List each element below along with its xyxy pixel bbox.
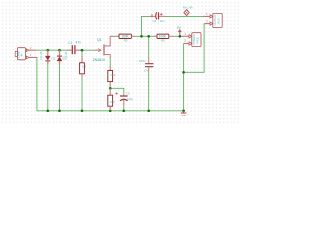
connector X2 body bbox=[192, 33, 201, 47]
wire node A up to C2 bbox=[142, 16, 151, 36]
pin 2 of X3 bbox=[204, 23, 210, 25]
node A bus-C2 bbox=[140, 35, 143, 38]
svg-text:2K2: 2K2 bbox=[110, 73, 116, 77]
wire R2 to junction bbox=[109, 85, 111, 89]
svg-text:D1: D1 bbox=[52, 57, 56, 61]
wire C1 to gate Q1 bbox=[80, 49, 96, 51]
wire drain Q1 to R3 bbox=[113, 35, 117, 37]
svg-text:IN: IN bbox=[20, 54, 24, 57]
connector X3 body bbox=[213, 13, 222, 27]
svg-text:2: 2 bbox=[206, 19, 208, 23]
wire X3 pin2 down and across bbox=[184, 24, 205, 73]
wire X2 pin2 down to rail bbox=[183, 44, 185, 111]
node rail R4 bbox=[109, 109, 112, 112]
wire R4 to rail bbox=[109, 109, 111, 111]
wire ground rail bbox=[37, 57, 184, 110]
node supply junction bbox=[178, 35, 181, 38]
svg-text:150n: 150n bbox=[139, 59, 146, 63]
svg-text:R5: R5 bbox=[161, 39, 165, 43]
svg-text:GND: GND bbox=[181, 115, 186, 117]
svg-text:C4: C4 bbox=[144, 68, 148, 72]
node rail C3 bbox=[122, 109, 125, 112]
pin 2 of X2 bbox=[184, 43, 189, 45]
wire C4 to rail bbox=[148, 71, 150, 111]
svg-text:9V: 9V bbox=[177, 26, 182, 30]
wire R1 bottom to rail bbox=[81, 77, 83, 111]
wire source Q1 to R2 bbox=[109, 58, 111, 68]
wire C2 to X3 pin1 bbox=[165, 15, 204, 17]
pin 1 of X3 bbox=[203, 15, 210, 17]
svg-text:JACK: JACK bbox=[216, 18, 220, 25]
wire node B down to C4 bbox=[148, 36, 150, 58]
svg-text:1M: 1M bbox=[82, 64, 87, 68]
wire supply stem bottom bbox=[179, 34, 181, 37]
pin 1 of X1 bbox=[26, 56, 29, 59]
node B bus-C4 bbox=[147, 35, 150, 38]
svg-text:POWER: POWER bbox=[192, 34, 196, 44]
svg-text:1N4148: 1N4148 bbox=[40, 51, 43, 60]
wire R1 top bbox=[81, 50, 83, 56]
svg-text:10u: 10u bbox=[159, 19, 164, 23]
node rail GND bbox=[182, 109, 185, 112]
svg-text:Q1: Q1 bbox=[97, 38, 102, 42]
node rail C4 bbox=[147, 109, 150, 112]
pin 1 of X2 bbox=[181, 35, 189, 37]
drain lead bbox=[105, 36, 113, 46]
wire junction to C3 top bbox=[110, 88, 124, 95]
svg-text:1N4148: 1N4148 bbox=[65, 51, 68, 60]
svg-text:2: 2 bbox=[184, 39, 186, 43]
node input-D1 bbox=[46, 49, 49, 52]
node R2-C3 link bbox=[109, 87, 112, 90]
wire C3 to rail bbox=[123, 105, 125, 111]
svg-text:10K: 10K bbox=[109, 100, 115, 104]
node rail R1 bbox=[81, 109, 84, 112]
node rail D1 bbox=[46, 109, 49, 112]
wire R3 to node A bbox=[135, 35, 154, 37]
node input-R1 bbox=[81, 49, 84, 52]
svg-text:C3: C3 bbox=[126, 92, 130, 96]
wire D2 to rail bbox=[59, 64, 61, 111]
node input-D2 bbox=[58, 49, 61, 52]
node rail D2 bbox=[58, 109, 61, 112]
connector X1 body bbox=[18, 48, 26, 60]
svg-text:C1: C1 bbox=[68, 41, 72, 45]
node X3pin2-X2pin2 link bbox=[182, 71, 185, 74]
svg-text:OUTPUT: OUTPUT bbox=[213, 14, 217, 25]
wire input net X1 pin2 to C1 bbox=[36, 49, 68, 51]
gate lead bbox=[95, 49, 101, 51]
svg-text:9VDC: 9VDC bbox=[195, 37, 199, 44]
svg-text:47n: 47n bbox=[76, 40, 82, 44]
pin 2 of X1 bbox=[26, 49, 29, 52]
svg-text:NA_NA: NA_NA bbox=[183, 6, 193, 10]
svg-text:1: 1 bbox=[206, 12, 208, 16]
svg-text:R3: R3 bbox=[124, 39, 128, 43]
svg-text:1: 1 bbox=[184, 32, 186, 36]
channel bar bbox=[103, 44, 105, 55]
source lead bbox=[105, 55, 111, 59]
wire R5 to supply junction bbox=[172, 35, 182, 37]
svg-text:100u: 100u bbox=[127, 97, 134, 101]
svg-text:C2: C2 bbox=[152, 19, 156, 23]
wire D1 to rail bbox=[47, 64, 49, 111]
svg-text:2N3819: 2N3819 bbox=[93, 58, 105, 62]
